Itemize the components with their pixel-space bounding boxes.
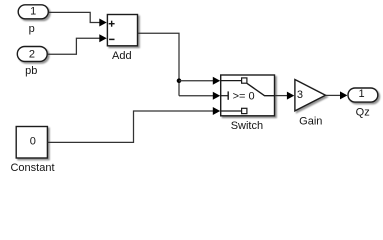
svg-text:Qz: Qz [356,107,370,119]
switch input 1 contact square [242,78,247,83]
gain block (triangle) [295,80,326,111]
wire inport2 to Add - input [48,34,107,54]
switch input 1 stub [221,80,242,82]
wire Gain to outport [326,91,348,99]
wire junction to Switch input 1 [179,77,220,85]
svg-text:Add: Add [112,50,132,62]
svg-text:>= 0: >= 0 [233,90,255,102]
wire junction to Switch control input 2 [179,92,220,100]
wire Constant to Switch input 3 [48,107,221,142]
switch input 3 contact square [242,108,247,113]
svg-text:Gain: Gain [299,116,322,128]
sum block Add [107,15,137,46]
switch control stub with tick [221,95,228,97]
switch input 3 stub [221,110,242,112]
wire inport1 to Add + input [49,12,107,26]
svg-text:p: p [29,23,35,35]
svg-text:1: 1 [30,6,36,18]
constant block [16,127,47,159]
svg-text:Constant: Constant [10,162,54,174]
svg-text:3: 3 [297,89,303,101]
wire Switch output to Gain [275,92,294,100]
plus sign (port 1) [109,21,115,27]
switch block [221,75,275,116]
svg-text:pb: pb [25,65,37,77]
junction node dot [177,78,182,83]
svg-text:2: 2 [29,48,35,60]
inport block 2 (pb) [17,47,47,62]
switch arm to output [247,83,275,95]
inport block 1 (p) [18,5,48,19]
svg-text:1: 1 [358,88,364,100]
outport block 1 (Qz) [348,88,378,102]
svg-text:0: 0 [30,136,36,148]
minus sign (port 2) [109,38,114,40]
wire Add output to junction riser [138,33,179,95]
svg-text:Switch: Switch [231,120,263,132]
